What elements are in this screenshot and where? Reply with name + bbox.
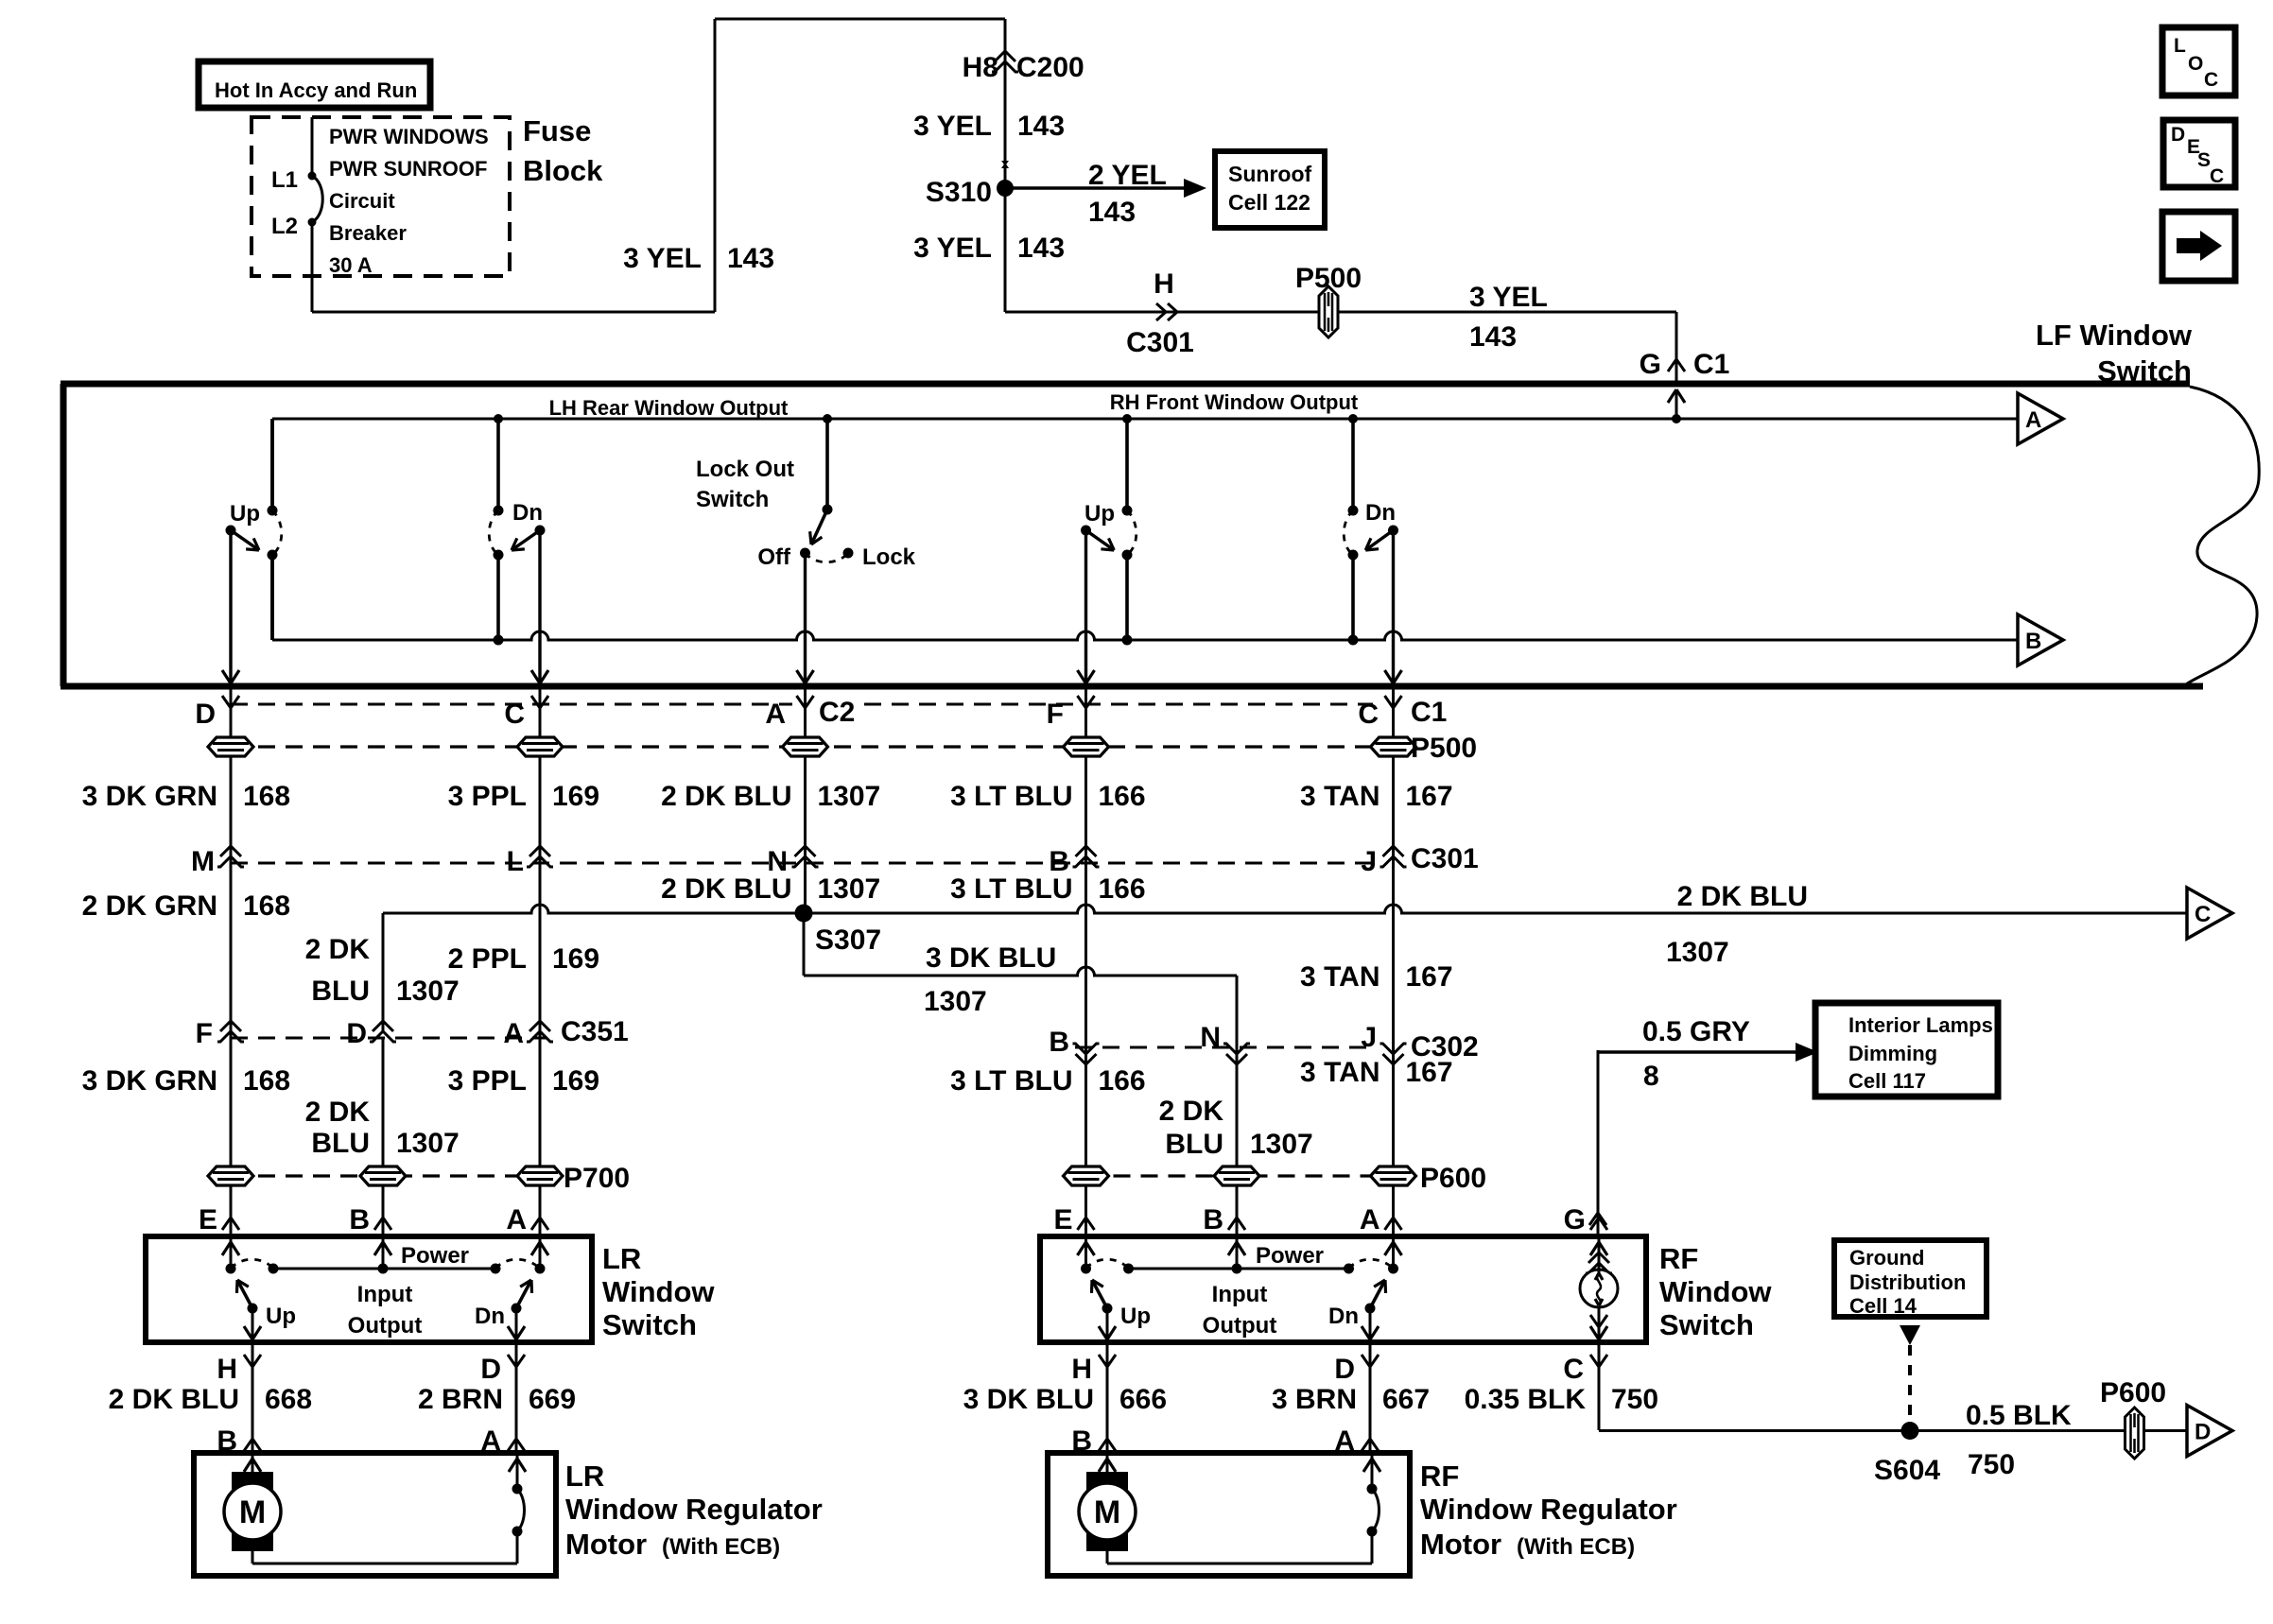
svg-text:Off: Off [757, 544, 791, 570]
svg-text:M: M [239, 1494, 266, 1530]
svg-text:L2: L2 [271, 214, 298, 239]
svg-text:166: 166 [1099, 873, 1146, 905]
svg-text:Window Regulator: Window Regulator [1420, 1493, 1677, 1526]
svg-text:D: D [346, 1018, 367, 1049]
svg-text:BLU: BLU [1165, 1129, 1223, 1160]
svg-text:G: G [1640, 349, 1661, 380]
svg-text:L: L [2174, 35, 2186, 57]
svg-text:Switch: Switch [602, 1308, 697, 1341]
svg-text:2 DK: 2 DK [305, 934, 371, 965]
svg-text:Up: Up [266, 1304, 296, 1329]
svg-text:666: 666 [1119, 1384, 1167, 1415]
svg-text:168: 168 [243, 890, 290, 922]
svg-text:L1: L1 [271, 167, 298, 193]
svg-text:A: A [506, 1204, 527, 1235]
svg-text:A: A [1360, 1204, 1380, 1235]
svg-text:668: 668 [265, 1384, 312, 1415]
svg-text:Output: Output [348, 1313, 423, 1339]
svg-text:D: D [195, 699, 216, 730]
svg-text:J: J [1361, 846, 1377, 877]
svg-text:LR: LR [602, 1242, 641, 1275]
svg-text:LF Window: LF Window [2036, 319, 2193, 352]
svg-text:3 BRN: 3 BRN [1272, 1384, 1357, 1415]
svg-text:O: O [2188, 53, 2203, 75]
svg-text:RH Front Window Output: RH Front Window Output [1110, 390, 1359, 414]
svg-text:3 DK GRN: 3 DK GRN [82, 781, 217, 812]
svg-text:C351: C351 [561, 1016, 629, 1047]
svg-text:M: M [1094, 1494, 1120, 1530]
svg-text:P600: P600 [2100, 1377, 2166, 1408]
svg-text:C: C [2210, 165, 2224, 187]
svg-text:D: D [480, 1354, 501, 1385]
svg-text:D: D [2195, 1420, 2211, 1445]
svg-text:L: L [507, 846, 524, 877]
svg-text:1307: 1307 [1666, 937, 1729, 968]
svg-text:LR: LR [565, 1460, 604, 1493]
svg-text:168: 168 [243, 1065, 290, 1097]
svg-text:2 DK GRN: 2 DK GRN [82, 890, 217, 922]
svg-text:G: G [1564, 1204, 1586, 1235]
svg-text:2 YEL: 2 YEL [1088, 160, 1167, 191]
svg-text:Ground: Ground [1849, 1246, 1924, 1270]
svg-text:3 LT BLU: 3 LT BLU [950, 781, 1072, 812]
svg-text:Interior Lamps: Interior Lamps [1848, 1013, 1993, 1037]
svg-text:x: x [1001, 156, 1010, 172]
svg-text:RF: RF [1420, 1460, 1459, 1493]
svg-text:Sunroof: Sunroof [1228, 162, 1311, 186]
svg-text:1307: 1307 [818, 781, 881, 812]
svg-text:Cell 117: Cell 117 [1848, 1069, 1926, 1093]
svg-text:Input: Input [1212, 1282, 1268, 1307]
svg-text:Breaker: Breaker [329, 221, 407, 245]
svg-text:Power: Power [1256, 1243, 1324, 1269]
svg-text:H: H [217, 1354, 237, 1385]
svg-text:Dn: Dn [475, 1304, 505, 1329]
svg-text:1307: 1307 [818, 873, 881, 905]
svg-text:2 PPL: 2 PPL [448, 943, 527, 975]
svg-text:3 DK GRN: 3 DK GRN [82, 1065, 217, 1097]
svg-text:143: 143 [1017, 111, 1065, 142]
svg-text:667: 667 [1382, 1384, 1430, 1415]
svg-text:3 TAN: 3 TAN [1300, 781, 1379, 812]
svg-text:P600: P600 [1420, 1163, 1486, 1194]
svg-text:168: 168 [243, 781, 290, 812]
svg-text:P700: P700 [564, 1163, 630, 1194]
svg-text:3 PPL: 3 PPL [448, 1065, 527, 1097]
svg-text:A: A [2025, 407, 2041, 433]
svg-text:3 LT BLU: 3 LT BLU [950, 873, 1072, 905]
svg-text:(With ECB): (With ECB) [1517, 1534, 1635, 1560]
svg-text:C301: C301 [1411, 843, 1479, 874]
svg-text:Window Regulator: Window Regulator [565, 1493, 823, 1526]
svg-text:RF: RF [1659, 1242, 1698, 1275]
svg-text:Motor: Motor [565, 1528, 647, 1561]
svg-text:166: 166 [1099, 781, 1146, 812]
svg-text:143: 143 [1469, 321, 1517, 353]
svg-text:3 YEL: 3 YEL [913, 111, 992, 142]
svg-text:Dn: Dn [1328, 1304, 1359, 1329]
svg-text:H8: H8 [963, 52, 998, 83]
svg-text:B: B [2025, 629, 2041, 654]
svg-text:Window: Window [602, 1275, 715, 1308]
svg-text:C: C [2195, 902, 2211, 927]
svg-text:Cell 14: Cell 14 [1849, 1294, 1917, 1318]
svg-text:2 DK: 2 DK [305, 1097, 371, 1128]
svg-text:PWR WINDOWS: PWR WINDOWS [329, 125, 489, 148]
svg-text:Power: Power [401, 1243, 469, 1269]
svg-text:F: F [196, 1018, 213, 1049]
svg-text:BLU: BLU [311, 1128, 370, 1159]
svg-text:C200: C200 [1016, 52, 1084, 83]
svg-text:Switch: Switch [1659, 1308, 1754, 1341]
svg-text:S: S [2197, 149, 2211, 171]
svg-text:C: C [2204, 69, 2218, 91]
svg-text:143: 143 [1017, 233, 1065, 264]
svg-text:3 LT BLU: 3 LT BLU [950, 1065, 1072, 1097]
svg-text:3 TAN: 3 TAN [1300, 1057, 1379, 1088]
svg-text:H: H [1154, 268, 1174, 300]
svg-text:Hot In Accy and Run: Hot In Accy and Run [215, 78, 417, 102]
svg-text:2 DK: 2 DK [1159, 1096, 1224, 1127]
svg-text:C2: C2 [819, 697, 855, 728]
svg-text:1307: 1307 [396, 1128, 460, 1159]
svg-text:Motor: Motor [1420, 1528, 1501, 1561]
svg-text:166: 166 [1099, 1065, 1146, 1097]
svg-text:C1: C1 [1411, 697, 1447, 728]
svg-text:S310: S310 [926, 177, 992, 208]
svg-text:3 PPL: 3 PPL [448, 781, 527, 812]
svg-text:2 DK BLU: 2 DK BLU [1677, 881, 1808, 912]
svg-text:167: 167 [1406, 781, 1453, 812]
svg-text:3 DK BLU: 3 DK BLU [963, 1384, 1094, 1415]
svg-text:Lock: Lock [862, 544, 916, 570]
svg-text:Input: Input [357, 1282, 413, 1307]
svg-text:30 A: 30 A [329, 253, 373, 277]
svg-text:Circuit: Circuit [329, 189, 395, 213]
svg-text:3 TAN: 3 TAN [1300, 961, 1379, 993]
svg-text:B: B [1203, 1204, 1223, 1235]
svg-text:Dn: Dn [512, 500, 543, 526]
svg-text:B: B [1049, 1027, 1069, 1058]
svg-text:C: C [1563, 1354, 1584, 1385]
svg-text:2 DK BLU: 2 DK BLU [109, 1384, 239, 1415]
svg-text:3 YEL: 3 YEL [913, 233, 992, 264]
svg-text:Dn: Dn [1365, 500, 1396, 526]
svg-text:169: 169 [552, 943, 599, 975]
svg-text:A: A [503, 1018, 524, 1049]
svg-text:E: E [1053, 1204, 1072, 1235]
svg-text:169: 169 [552, 1065, 599, 1097]
svg-text:D: D [2171, 124, 2185, 146]
svg-text:0.5 BLK: 0.5 BLK [1966, 1400, 2072, 1431]
svg-text:3 YEL: 3 YEL [1469, 282, 1548, 313]
svg-text:LH Rear Window Output: LH Rear Window Output [549, 396, 789, 420]
svg-text:2 DK BLU: 2 DK BLU [661, 781, 791, 812]
svg-text:169: 169 [552, 781, 599, 812]
svg-text:B: B [349, 1204, 370, 1235]
svg-text:167: 167 [1406, 961, 1453, 993]
svg-text:P500: P500 [1295, 263, 1362, 294]
svg-text:669: 669 [529, 1384, 576, 1415]
svg-text:C301: C301 [1126, 327, 1194, 358]
svg-text:750: 750 [1968, 1449, 2015, 1480]
svg-text:S307: S307 [815, 924, 881, 956]
svg-text:Up: Up [1120, 1304, 1151, 1329]
svg-text:1307: 1307 [1250, 1129, 1313, 1160]
svg-text:C1: C1 [1693, 349, 1729, 380]
svg-text:N: N [1200, 1022, 1221, 1053]
svg-text:D: D [1334, 1354, 1355, 1385]
svg-text:3 YEL: 3 YEL [623, 243, 702, 274]
svg-text:Dimming: Dimming [1848, 1042, 1937, 1065]
svg-text:H: H [1071, 1354, 1092, 1385]
svg-text:3 DK BLU: 3 DK BLU [926, 942, 1056, 974]
svg-text:2 BRN: 2 BRN [418, 1384, 503, 1415]
svg-text:0.5 GRY: 0.5 GRY [1642, 1016, 1750, 1047]
svg-text:E: E [199, 1204, 217, 1235]
svg-text:M: M [191, 846, 215, 877]
svg-text:Cell 122: Cell 122 [1228, 190, 1310, 215]
svg-text:S604: S604 [1874, 1455, 1940, 1486]
svg-text:BLU: BLU [311, 976, 370, 1007]
svg-text:(With ECB): (With ECB) [662, 1534, 780, 1560]
svg-text:Lock Out: Lock Out [696, 457, 794, 482]
svg-text:J: J [1361, 1022, 1377, 1053]
svg-text:P500: P500 [1411, 733, 1477, 764]
svg-text:167: 167 [1406, 1057, 1453, 1088]
svg-text:PWR SUNROOF: PWR SUNROOF [329, 157, 487, 181]
svg-text:2 DK BLU: 2 DK BLU [661, 873, 791, 905]
svg-text:Window: Window [1659, 1275, 1772, 1308]
svg-text:1307: 1307 [396, 976, 460, 1007]
svg-text:Block: Block [523, 154, 603, 187]
svg-text:Switch: Switch [696, 487, 769, 512]
svg-text:Fuse: Fuse [523, 114, 591, 147]
svg-text:143: 143 [1088, 197, 1136, 228]
svg-text:8: 8 [1643, 1061, 1659, 1092]
svg-text:Up: Up [230, 501, 260, 527]
svg-text:Up: Up [1084, 501, 1115, 527]
svg-text:1307: 1307 [924, 986, 987, 1017]
svg-text:750: 750 [1611, 1384, 1658, 1415]
svg-text:Output: Output [1203, 1313, 1277, 1339]
svg-text:143: 143 [727, 243, 774, 274]
svg-text:0.35 BLK: 0.35 BLK [1465, 1384, 1587, 1415]
svg-text:Distribution: Distribution [1849, 1270, 1966, 1294]
